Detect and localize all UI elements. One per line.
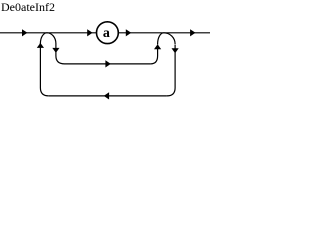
wire: left descender from left junction to skip line: [56, 44, 65, 64]
junction arc: right hump joining/leaving main rail: [158, 33, 176, 44]
wire: return line (bottom horizontal): [49, 95, 167, 97]
arrowhead left-arrow on return line: [104, 92, 109, 99]
arrowhead A3 on main rail after circle: [126, 29, 131, 36]
arrowhead A4 on main rail right: [190, 29, 195, 36]
wire: skip line riser up to right junction: [151, 44, 158, 64]
arrowhead down-arrow leaving right junction: [172, 48, 179, 53]
arrowhead A2 entering state circle: [87, 29, 92, 36]
wire: return line riser up to left junction: [40, 43, 48, 96]
wire: right descender from right junction to return line: [167, 45, 175, 96]
wire: main rail left segment: [0, 32, 97, 34]
svg-text:De0ateInf2: De0ateInf2: [1, 0, 55, 14]
arrowhead up-arrow into left junction: [37, 43, 44, 48]
svg-text:a: a: [103, 26, 110, 41]
junction arc: left hump joining/leaving main rail: [40, 33, 56, 44]
arrowhead down-arrow leaving left junction: [52, 48, 59, 53]
wire: main rail right segment: [119, 32, 210, 34]
state circle 'a': [97, 22, 119, 44]
arrowhead up-arrow into right junction: [154, 44, 161, 49]
arrowhead right-arrow on skip line: [105, 60, 110, 67]
arrowhead A1 on main rail: [22, 29, 27, 36]
wire: skip line (middle horizontal): [65, 63, 151, 65]
